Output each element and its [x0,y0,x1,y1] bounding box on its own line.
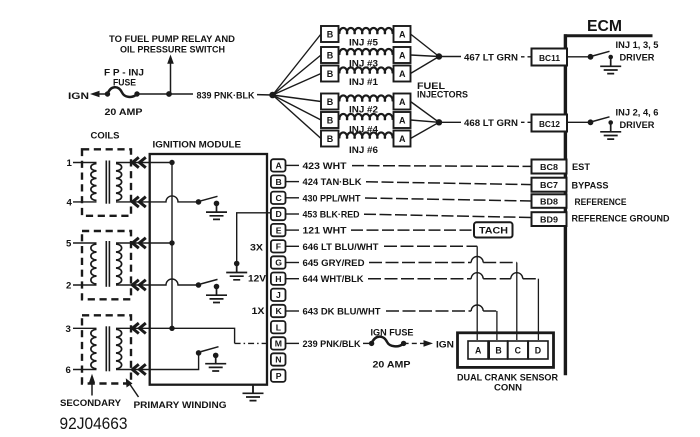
wire 646 LT BLU/WHT: pin F to crank sensor A [286,242,477,340]
fuse: F.P-INJ FUSE 20 AMP [104,68,144,118]
label: FUEL INJECTORS [417,81,468,100]
svg-text:K: K [276,306,283,316]
svg-text:12V: 12V [248,273,267,284]
label: TO FUEL PUMP RELAY AND OIL PRESSURE SWITCH [109,34,235,55]
svg-text:BYPASS: BYPASS [572,180,609,190]
wire: fuse to IGN (arrow right) [404,339,454,350]
ground: Q1 emitter [206,205,227,220]
svg-text:DRIVER: DRIVER [620,120,655,130]
svg-text:INJ #5: INJ #5 [349,37,378,47]
svg-text:20 AMP: 20 AMP [105,107,144,118]
module pin H [271,273,286,285]
module pin L [271,321,286,333]
module pin M [271,337,286,349]
svg-text:EST: EST [572,162,590,172]
wire: INJ2 output [411,102,440,123]
svg-text:D: D [535,346,541,356]
svg-text:B: B [327,134,334,144]
svg-text:M: M [275,339,282,349]
dual crank sensor connector J1 [457,333,558,394]
svg-text:C: C [515,346,522,356]
svg-text:F: F [276,242,281,252]
crank sensor pin A [468,341,488,359]
TACH connector [474,222,513,237]
connector arrows: coil T1 primary [132,157,145,167]
connector pin BC8 [532,160,591,174]
svg-text:B: B [327,29,334,39]
crank sensor pin C [508,341,528,359]
module pin B [271,175,286,187]
connector pin BC12 [532,115,568,132]
ground: ignition module case [243,385,264,401]
svg-text:A: A [399,115,406,125]
wire 424 TAN-BLK: pin B to BC7 (BYPASS) [286,177,532,188]
svg-text:2: 2 [66,281,71,292]
svg-text:P: P [276,371,282,381]
ECM main bus [564,34,567,375]
svg-text:646 LT BLU/WHT: 646 LT BLU/WHT [303,242,379,253]
svg-text:PRIMARY WINDING: PRIMARY WINDING [134,400,227,411]
svg-text:INJ #6: INJ #6 [349,145,378,155]
wire 430 PPL/WHT: pin C to BD8 (REFERENCE) [286,193,532,204]
svg-text:430 PPL/WHT: 430 PPL/WHT [303,193,361,204]
svg-text:SECONDARY: SECONDARY [60,398,122,409]
wire: fan to INJ5 [273,34,321,95]
ground: module internal (12V ref) [226,264,247,280]
svg-text:645 GRY/RED: 645 GRY/RED [303,258,365,269]
transistor switch Q1 (coil T1 driver) [196,196,220,206]
wire 643 DK BLU/WHT: pin K to crank sensor B (hop at 477) [286,305,497,340]
svg-text:A: A [276,161,283,171]
svg-text:IGNITION MODULE: IGNITION MODULE [153,140,242,151]
svg-text:467 LT GRN: 467 LT GRN [464,52,518,63]
injector L5 (INJ #5) [321,26,411,47]
svg-text:G: G [275,258,282,268]
svg-text:BC11: BC11 [539,53,560,63]
svg-text:4: 4 [67,197,73,208]
connector pin BD8 [532,194,627,208]
svg-text:92J04663: 92J04663 [60,414,128,433]
ignition coil T1 (cyl 1/4) [67,149,150,216]
wire 121 WHT: pin E to TACH [286,226,474,237]
svg-text:B: B [327,97,334,107]
module pin J [271,289,286,301]
injector L1 (INJ #1) [321,66,411,88]
svg-text:B: B [327,69,334,79]
svg-text:644 WHT/BLK: 644 WHT/BLK [303,274,364,285]
svg-text:CONN: CONN [494,383,522,394]
wire: INJ4 output [411,120,440,122]
svg-text:TACH: TACH [479,225,508,236]
connector pin BC7 [532,178,609,192]
svg-text:839 PNK·BLK: 839 PNK·BLK [197,90,255,101]
svg-text:20 AMP: 20 AMP [373,359,412,370]
node: injector feed fan-out [269,92,276,99]
module pin E [271,224,286,236]
svg-text:D: D [276,209,282,219]
svg-text:1X: 1X [252,306,266,317]
injector L3 (INJ #3) [321,47,411,69]
ignition coil T3 (cyl 3/6) [66,315,150,383]
injector L6 (INJ #6) [321,131,411,156]
wire: fuse to injector fan node [137,93,193,95]
module pin F [271,240,286,252]
node: junction at fuel-pump branch [166,91,172,97]
connector pin BD9 [532,212,670,226]
transistor switch Q2 (coil T2 driver) [196,279,220,289]
svg-text:C: C [276,193,283,203]
svg-text:643 DK BLU/WHT: 643 DK BLU/WHT [303,307,381,318]
wire: coil T1 primary top to feed [150,162,172,164]
wire: INJ1 output [411,57,440,74]
module pin C [271,192,286,204]
svg-text:BD8: BD8 [540,196,558,206]
wire: fan to INJ3 [273,55,321,95]
svg-text:IGN: IGN [436,339,454,350]
connector arrows: coil T2 primary [132,238,145,248]
label: SECONDARY (with arrow) [60,374,122,409]
svg-text:A: A [399,50,406,60]
wire: INJ3 output [411,55,440,57]
ignition module U1 [150,140,267,385]
module pin A [271,159,286,171]
node: T1 feed junction [169,160,174,165]
injector L2 (INJ #2) [321,94,411,115]
label: PRIMARY WINDING (with arrow) [126,378,227,411]
wire: pin D internal to ground [237,213,271,262]
svg-text:A: A [399,134,406,144]
module pin G [271,256,286,268]
module pin K [271,305,286,317]
wire: coil T3 primary bottom to switch [150,355,199,370]
svg-text:239 PNK/BLK: 239 PNK/BLK [303,339,361,350]
svg-text:IGN: IGN [68,91,89,102]
wire 423 WHT: pin A to BC8 (EST) [286,161,532,172]
svg-text:423 WHT: 423 WHT [303,161,347,172]
wire 453 BLK-RED: pin D to BD9 (REFERENCE GROUND) [286,210,532,221]
svg-text:H: H [275,274,281,284]
transistor switch Q3 (coil T3 driver) [196,347,219,359]
svg-text:J: J [276,290,281,300]
svg-text:E: E [276,225,282,235]
node: T3 feed junction [169,326,174,331]
node: T2 feed junction [169,240,174,245]
svg-text:468 LT GRN: 468 LT GRN [464,118,518,129]
wire 468 LT GRN to BC12 [439,118,532,129]
fuse: IGN FUSE 20 AMP [369,327,414,370]
crank sensor pin D [528,341,548,359]
svg-text:453 BLK·RED: 453 BLK·RED [303,210,360,221]
svg-text:BC7: BC7 [540,180,558,190]
connector pin BC11 [532,49,568,66]
svg-text:REFERENCE GROUND: REFERENCE GROUND [572,213,670,223]
wire 645 GRY/RED: pin G to crank sensor C (hop at 477) [286,257,517,341]
svg-text:ECM: ECM [587,18,622,35]
wire: INJ6 output [411,122,440,138]
ignition coil T2 (cyl 5/2) [66,231,150,299]
svg-text:INJ 1, 3, 5: INJ 1, 3, 5 [616,40,659,50]
wire: coil T2 primary top to feed [150,242,172,244]
svg-text:INJECTORS: INJECTORS [417,90,468,100]
svg-text:N: N [275,355,281,365]
svg-text:B: B [327,115,334,125]
svg-text:OIL PRESSURE SWITCH: OIL PRESSURE SWITCH [120,44,225,55]
svg-text:INJ 2, 4, 6: INJ 2, 4, 6 [616,108,659,118]
injector L4 (INJ #4) [321,112,411,135]
svg-text:A: A [399,69,406,79]
wire: coil T2 primary bottom to switch (hop over feed) [150,279,196,285]
wire: fan to INJ6 [273,95,321,139]
wire: module feed bus (vertical) [171,163,173,329]
module pin P [271,370,286,382]
wire: coil T1 primary bottom to switch (hop over feed) [150,196,196,202]
svg-text:B: B [495,346,501,356]
node: junction 468 [436,119,442,125]
node: internal ground junction [234,261,240,267]
ground: Q3 emitter [205,356,226,371]
crank sensor pin B [489,341,507,359]
svg-text:L: L [276,322,282,332]
wire 467 LT GRN to BC11 [439,52,532,63]
svg-text:5: 5 [66,239,72,250]
wire: branch to fuel pump relay (up arrow) [167,55,174,95]
svg-text:3: 3 [66,324,71,335]
svg-text:A: A [399,29,406,39]
svg-text:3X: 3X [250,243,264,254]
svg-text:REFERENCE: REFERENCE [575,197,627,207]
svg-text:A: A [475,346,482,356]
svg-text:BC8: BC8 [540,162,558,172]
ECM top edge [564,34,653,37]
svg-text:COILS: COILS [91,130,121,141]
ECM injector driver 1,3,5 (switch to ground) [567,40,659,74]
svg-text:B: B [276,177,282,187]
node: junction 467 [436,53,442,59]
wire: to fan node [257,94,273,96]
module pin N [271,353,286,365]
svg-text:B: B [327,50,334,60]
wire: fan to INJ2 [273,95,321,102]
ECM injector driver 2,4,6 (switch to ground) [567,108,659,140]
svg-text:INJ #1: INJ #1 [349,77,378,87]
svg-text:121 WHT: 121 WHT [303,226,347,237]
svg-text:BD9: BD9 [540,214,558,224]
module pin D [271,208,286,220]
wire: coil T3 primary top / feed from pin M [150,328,235,343]
wire 239 PNK/BLK: pin M from IGN fuse [286,339,372,350]
svg-text:6: 6 [66,365,71,376]
svg-text:FUSE: FUSE [113,78,137,89]
wire 644 WHT/BLK: pin H to crank sensor D (hops at 477,517) [286,273,538,340]
svg-text:1: 1 [67,158,73,169]
wire: fan to INJ1 [273,74,321,96]
wire: INJ5 output [411,34,440,57]
ground: Q2 emitter [206,288,227,303]
svg-text:A: A [399,97,406,107]
connector arrows: coil T3 primary [132,323,145,333]
svg-text:424 TAN·BLK: 424 TAN·BLK [303,177,362,188]
svg-text:BC12: BC12 [539,119,560,129]
wire: fan to INJ4 [273,95,321,120]
wire: IGN arrow to fuse [90,91,107,98]
svg-text:DRIVER: DRIVER [620,53,655,63]
